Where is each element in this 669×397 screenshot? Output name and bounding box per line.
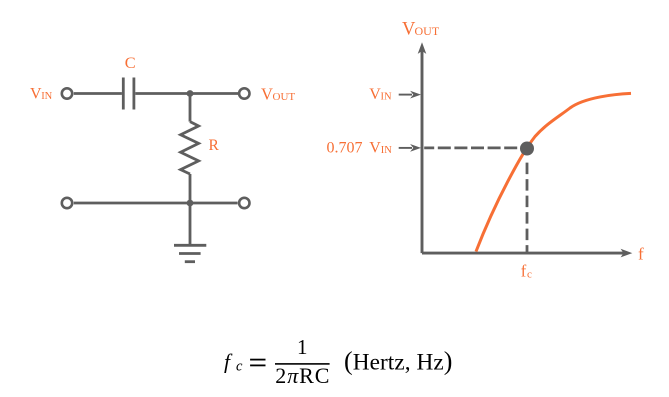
wire resistor to bottom junction xyxy=(189,174,192,203)
svg-text:IN: IN xyxy=(381,145,392,156)
node junction top xyxy=(187,90,194,97)
svg-text:V: V xyxy=(369,140,381,157)
svg-text:f: f xyxy=(638,245,644,264)
svg-text:IN: IN xyxy=(41,91,52,102)
svg-text:OUT: OUT xyxy=(415,24,440,38)
svg-text:IN: IN xyxy=(381,92,392,103)
wire capacitor to VOUT terminal xyxy=(135,92,238,95)
svg-text:R: R xyxy=(209,137,220,154)
terminal VOUT xyxy=(239,88,249,98)
formula fc = 1/(2piRC) (Hertz, Hz) xyxy=(224,335,452,388)
dashed horizontal 0.707 line xyxy=(424,146,519,149)
svg-text:V: V xyxy=(261,84,273,103)
svg-text:OUT: OUT xyxy=(273,91,296,103)
svg-text:(Hertz, Hz): (Hertz, Hz) xyxy=(344,346,452,375)
wire VIN to capacitor xyxy=(74,92,122,95)
wire bottom-left to junction xyxy=(74,202,238,205)
capacitor C xyxy=(122,78,125,110)
svg-text:0.707: 0.707 xyxy=(327,140,363,157)
node junction bottom xyxy=(187,200,194,207)
ground xyxy=(174,245,206,261)
terminal bottom-left xyxy=(62,198,72,208)
terminal VIN xyxy=(62,88,72,98)
x-axis f xyxy=(422,252,624,255)
arrow VIN level xyxy=(399,94,412,96)
wire junction to resistor xyxy=(189,94,192,122)
svg-text:2πRC: 2πRC xyxy=(275,363,330,388)
svg-text:C: C xyxy=(125,53,136,72)
svg-text:V: V xyxy=(30,85,42,102)
point at fc xyxy=(520,142,534,156)
svg-text:c: c xyxy=(236,359,243,375)
arrow 0.707 level xyxy=(399,147,412,149)
svg-text:V: V xyxy=(369,86,381,103)
resistor R xyxy=(181,122,199,174)
dashed vertical fc line xyxy=(526,163,529,253)
y-axis VOUT xyxy=(421,50,424,253)
response curve xyxy=(476,93,631,251)
wire junction to ground xyxy=(189,203,192,244)
terminal bottom-right xyxy=(239,198,249,208)
svg-text:c: c xyxy=(527,269,532,281)
svg-text:f: f xyxy=(521,262,527,281)
svg-text:1: 1 xyxy=(297,335,308,359)
